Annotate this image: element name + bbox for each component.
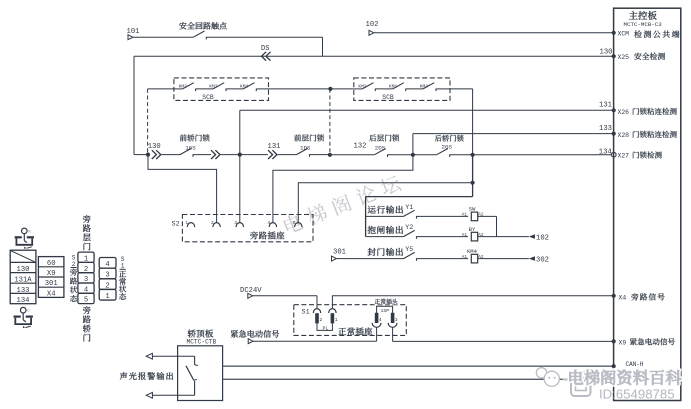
svg-text:S2: S2 bbox=[172, 220, 180, 228]
svg-text:KM2: KM2 bbox=[179, 83, 188, 89]
junction node133 bbox=[411, 153, 415, 157]
wire SCB1 inner d bbox=[256, 88, 268, 90]
wire row f bbox=[310, 154, 330, 156]
CTB switch top contact bbox=[194, 356, 196, 364]
wire row i bbox=[413, 154, 437, 156]
table1 box bbox=[10, 250, 36, 304]
table2 box bbox=[38, 257, 64, 298]
table3 cell 3 bbox=[78, 273, 94, 283]
S2 pin 3 socket bbox=[236, 223, 243, 227]
label 旁路层门 vertical bbox=[83, 215, 91, 223]
wire X28 bbox=[413, 133, 614, 135]
label 前轿门锁 bbox=[180, 134, 187, 141]
svg-text:Y5: Y5 bbox=[405, 246, 413, 253]
wire emergency to pin4 bbox=[253, 340, 377, 342]
connector DS chevrons bbox=[262, 52, 267, 61]
wire SCB1 left stub bbox=[148, 88, 174, 90]
junction node131 bbox=[238, 153, 242, 157]
wire X28 riser bbox=[412, 134, 414, 155]
S2 pin 1 socket bbox=[187, 223, 194, 227]
wire SCB2 out bbox=[450, 88, 473, 90]
svg-text:SCB: SCB bbox=[202, 94, 214, 101]
svg-text:X28: X28 bbox=[618, 132, 630, 139]
switch 2GS bbox=[437, 149, 448, 155]
wire SCB1 inner a bbox=[174, 88, 183, 90]
wire pin3 drop bbox=[392, 327, 394, 341]
watermark bottom 电梯阁资料百科 ID:65498785 bbox=[536, 368, 681, 402]
svg-text:302: 302 bbox=[536, 256, 549, 264]
table3 cell 4 bbox=[78, 283, 94, 293]
svg-text:MCTC-CTB: MCTC-CTB bbox=[187, 339, 217, 346]
arrow to 102 bbox=[529, 234, 535, 239]
table3 cell 1 bbox=[78, 252, 94, 262]
label 正常插头 bg bbox=[374, 298, 399, 305]
terminal X9 bbox=[612, 339, 616, 343]
CTB box bbox=[178, 346, 223, 401]
wire row h bbox=[388, 154, 413, 156]
watermark diagonal 电梯阁论坛 bbox=[282, 173, 402, 235]
wire SCB2 drop to node134 bbox=[472, 89, 474, 155]
wire DC24V drop to S1 pin1 bbox=[316, 296, 318, 309]
wire alarm top bbox=[152, 355, 194, 357]
svg-text:SW: SW bbox=[469, 206, 476, 213]
svg-text:A1: A1 bbox=[462, 213, 468, 218]
arrow alarm out top bbox=[146, 353, 152, 359]
wire SCB1 inner c bbox=[226, 88, 243, 90]
switch Y1 bbox=[404, 210, 415, 216]
wire Y feed drop bbox=[472, 155, 474, 197]
svg-text:A1: A1 bbox=[462, 255, 468, 260]
label 封门输出 Y5 bbox=[368, 248, 376, 256]
wire Y feed bus bbox=[365, 197, 367, 237]
wire S2 pin3 tap bbox=[239, 155, 241, 223]
plug pin3 bbox=[391, 313, 395, 323]
svg-text:1: 1 bbox=[105, 293, 109, 301]
arrow to 302 bbox=[529, 256, 535, 261]
wire row a bbox=[162, 154, 181, 156]
switch 1GS bbox=[180, 148, 191, 154]
contact KM2 (SCB2) bbox=[362, 83, 373, 89]
wire SCB2 inner a bbox=[354, 88, 363, 90]
switch 2DS bbox=[375, 149, 386, 155]
svg-text:3: 3 bbox=[234, 220, 237, 226]
label 主控板 bbox=[629, 11, 638, 19]
svg-text:BY: BY bbox=[469, 226, 476, 233]
svg-text:4: 4 bbox=[379, 317, 382, 323]
S2 pin 4 socket bbox=[269, 223, 276, 227]
S1 box 正常插座 bbox=[294, 305, 407, 336]
svg-text:131: 131 bbox=[268, 143, 281, 151]
table4 cell 4 bbox=[99, 258, 116, 269]
svg-text:1: 1 bbox=[335, 317, 338, 323]
arrow alarm out bottom bbox=[146, 392, 152, 398]
label 紧急电动信号 bbox=[231, 330, 238, 338]
CTB switch blade bbox=[186, 366, 194, 381]
wire Y1 drop bbox=[496, 216, 498, 236]
S1 pin2 socket bbox=[329, 309, 336, 313]
relay coil SW bbox=[471, 212, 477, 221]
wire Y2 row c bbox=[478, 236, 529, 238]
contact KM1 (SCB1) bbox=[213, 83, 224, 89]
wire Y5 row a bbox=[336, 258, 403, 260]
wire CAN-L bbox=[223, 378, 614, 380]
wire Y feed horizontal bbox=[366, 196, 473, 198]
wire Y2 row b bbox=[417, 236, 469, 238]
label 声光报警输出 bbox=[120, 372, 128, 380]
contact KM4 (SCB2) bbox=[423, 83, 434, 89]
key switch symbol bottom bbox=[20, 307, 26, 313]
wire net130 horizontal to X25 bbox=[134, 55, 614, 57]
switch 安全回路触点 bbox=[193, 31, 204, 37]
svg-text:X26: X26 bbox=[618, 109, 630, 116]
svg-text:134: 134 bbox=[599, 149, 612, 157]
label 旁路插座 bbox=[250, 231, 258, 239]
svg-text:X4: X4 bbox=[47, 290, 56, 298]
wire 101 to corner bbox=[206, 36, 322, 38]
wire SCB dashed drop to node132 bbox=[329, 89, 331, 155]
wire DC24V bbox=[253, 295, 317, 297]
plug pin4 bbox=[375, 313, 379, 323]
main board box bbox=[614, 8, 681, 400]
switch Y5 bbox=[404, 252, 415, 258]
wire S2 pin4 tap bbox=[273, 155, 413, 223]
svg-text:S1: S1 bbox=[302, 309, 310, 317]
terminal X27 ring bbox=[612, 152, 617, 157]
wire 102 start arrow bbox=[369, 30, 374, 35]
svg-text:4: 4 bbox=[267, 220, 270, 226]
svg-text:KM4: KM4 bbox=[467, 248, 478, 255]
table4 cell 1 bbox=[99, 289, 116, 300]
svg-text:1: 1 bbox=[185, 220, 188, 226]
wire SCB1 dashed drop to node130 bbox=[147, 89, 149, 155]
label 后轿门锁 bbox=[435, 135, 442, 142]
key switch symbol top bbox=[22, 228, 28, 234]
jumper PL bbox=[317, 323, 332, 330]
svg-text:301: 301 bbox=[333, 248, 346, 256]
svg-text:MCTC-MCB-C3: MCTC-MCB-C3 bbox=[624, 21, 663, 28]
table2 cell X9 bbox=[38, 266, 64, 268]
connector chevrons a bbox=[152, 150, 157, 159]
svg-text:KM2: KM2 bbox=[358, 83, 367, 89]
svg-text:1SP: 1SP bbox=[381, 308, 390, 314]
svg-text:2DS: 2DS bbox=[375, 144, 386, 151]
table3 cell 5 bbox=[78, 293, 94, 303]
relay coil BY bbox=[471, 232, 477, 241]
S2 box 旁路插座 bbox=[182, 215, 313, 242]
label 正常插座 bbox=[338, 328, 346, 335]
wire 102 to XCM bbox=[374, 32, 614, 34]
SCB box 2 bbox=[354, 78, 450, 101]
table1 diagonal bbox=[10, 250, 36, 262]
wire row e bbox=[278, 154, 297, 156]
wire 101 start arrow bbox=[128, 35, 133, 40]
terminal X28 bbox=[612, 132, 616, 136]
svg-text:SCB: SCB bbox=[382, 94, 394, 101]
wire Y1 row a bbox=[366, 215, 404, 217]
relay coil KM4 bbox=[471, 254, 477, 263]
svg-text:G: G bbox=[27, 310, 29, 314]
S1 pin1 socket bbox=[313, 309, 320, 313]
S2 pin 2 socket bbox=[213, 223, 220, 227]
label 运行输出 Y1 bbox=[368, 206, 376, 214]
wire Y2 row a bbox=[366, 236, 404, 238]
wire Y1 row c bbox=[478, 215, 497, 217]
svg-text:2: 2 bbox=[319, 317, 322, 323]
wire X26 riser bbox=[239, 110, 241, 154]
svg-text:134: 134 bbox=[17, 297, 30, 305]
wire row b bbox=[193, 154, 211, 156]
svg-text:KM1: KM1 bbox=[209, 83, 218, 89]
wire SCB1 to junction bbox=[269, 88, 354, 90]
junction node130 bbox=[146, 153, 150, 157]
table1 row 134 bbox=[10, 292, 36, 294]
svg-text:130: 130 bbox=[600, 49, 613, 57]
wire SCB2 inner d bbox=[436, 88, 450, 90]
wire row g bbox=[330, 154, 375, 156]
CTB switch bottom contact bbox=[194, 381, 196, 396]
wire SCB1 inner b bbox=[196, 88, 213, 90]
svg-text:CAN-H: CAN-H bbox=[626, 361, 644, 368]
table1 row 130 bbox=[10, 261, 36, 263]
label 正常插头 bbox=[375, 299, 380, 304]
wire row c bbox=[221, 154, 240, 156]
terminal XCM bbox=[612, 31, 616, 35]
svg-text:2: 2 bbox=[72, 261, 76, 268]
svg-text:3: 3 bbox=[395, 317, 398, 323]
svg-text:131: 131 bbox=[599, 102, 612, 110]
svg-text:X4: X4 bbox=[619, 295, 627, 302]
svg-text:133: 133 bbox=[599, 125, 612, 133]
svg-text:ID:65498785: ID:65498785 bbox=[599, 386, 675, 401]
label 前层门锁 bbox=[294, 134, 301, 141]
wire CAN-H bbox=[223, 365, 614, 367]
mini contact glyph bottom bbox=[23, 326, 25, 328]
wire Y5 row c bbox=[478, 258, 529, 260]
wire S2 pin5 tap bbox=[298, 183, 472, 223]
svg-text:KM4: KM4 bbox=[240, 83, 249, 89]
svg-text:DC24V: DC24V bbox=[240, 287, 262, 295]
junction SCB mid bbox=[328, 87, 332, 91]
svg-text:Y2: Y2 bbox=[405, 224, 413, 231]
S2 pin 5 socket bbox=[295, 223, 302, 227]
junction pin5 tap bbox=[471, 181, 475, 185]
svg-text:XCM: XCM bbox=[618, 31, 630, 38]
contact KM2 (SCB1) bbox=[183, 83, 194, 89]
wire row j bbox=[450, 154, 614, 156]
wire net130 bottom bbox=[134, 154, 148, 156]
table4 cell 3 bbox=[99, 268, 116, 279]
wire pin4 drop bbox=[376, 327, 378, 341]
terminal CAN-L bbox=[612, 377, 616, 381]
svg-text:5: 5 bbox=[84, 297, 88, 305]
wire S2 pin2 tap bbox=[148, 155, 217, 223]
label 轿顶板 bbox=[188, 329, 196, 337]
wire alarm bottom bbox=[152, 394, 194, 396]
wire row d bbox=[240, 154, 268, 156]
svg-text:Y1: Y1 bbox=[405, 204, 413, 211]
wire 101 bbox=[133, 36, 194, 38]
terminal X25 bbox=[612, 54, 616, 58]
svg-text:X9: X9 bbox=[619, 339, 627, 346]
contact KM4 (SCB1) bbox=[243, 83, 254, 89]
svg-text:X27: X27 bbox=[618, 153, 630, 160]
terminal X26 bbox=[612, 108, 616, 112]
table2 cell 301 bbox=[38, 276, 64, 278]
wire Y1 row b bbox=[417, 215, 469, 217]
switch 1DS bbox=[297, 148, 308, 154]
wire emergency to X9 bbox=[393, 340, 614, 342]
wire X26 bbox=[240, 109, 614, 111]
switch Y2 bbox=[404, 230, 415, 236]
contact KM1 (SCB2) bbox=[393, 83, 404, 89]
svg-text:2: 2 bbox=[211, 220, 214, 226]
svg-text:PL: PL bbox=[323, 326, 329, 332]
terminal CAN-H bbox=[612, 364, 616, 368]
wire Y5 start arrow bbox=[332, 256, 337, 261]
svg-text:130: 130 bbox=[148, 143, 161, 151]
svg-text:102: 102 bbox=[536, 234, 549, 242]
table2 cell X4 bbox=[38, 286, 64, 288]
SCB box 1 bbox=[174, 78, 269, 101]
table4 cell 2 bbox=[99, 279, 116, 290]
wire net130 left drop bbox=[133, 56, 135, 154]
svg-text:132: 132 bbox=[354, 143, 367, 151]
svg-text:A1: A1 bbox=[462, 233, 468, 238]
wire Y5 row b bbox=[417, 258, 469, 260]
table3 cell 2 bbox=[78, 262, 94, 272]
plug 1SP bridge bbox=[377, 306, 393, 313]
wire X4 from S1 pin2 bbox=[332, 296, 613, 309]
svg-text:1DS: 1DS bbox=[300, 145, 311, 152]
label 后层门锁 bbox=[369, 134, 376, 141]
junction node134 bbox=[471, 153, 475, 157]
wire emergency start arrow bbox=[248, 339, 253, 344]
svg-text:X25: X25 bbox=[618, 54, 630, 61]
connector chevrons b bbox=[211, 150, 216, 159]
table1 row 133 bbox=[10, 282, 36, 284]
wire 101 drop bbox=[322, 37, 324, 56]
junction node132 bbox=[328, 153, 332, 157]
connector chevrons c bbox=[268, 150, 273, 159]
label 安全回路触点 bbox=[179, 22, 186, 29]
terminal X4 bbox=[612, 294, 616, 298]
svg-text:102: 102 bbox=[366, 21, 379, 29]
label 抱闸输出 Y2 bbox=[368, 226, 376, 234]
svg-text:1: 1 bbox=[121, 263, 125, 270]
mini contact glyph top bbox=[24, 247, 26, 249]
svg-text:KM1: KM1 bbox=[389, 83, 398, 89]
table1 row 131A bbox=[10, 272, 36, 274]
wire SCB2 inner b bbox=[375, 88, 392, 90]
label 旁路轿门 vertical bbox=[83, 306, 91, 314]
svg-text:5: 5 bbox=[293, 220, 296, 226]
wire SCB2 inner c bbox=[406, 88, 423, 90]
wire DC24V start arrow bbox=[248, 293, 253, 298]
svg-text:KM4: KM4 bbox=[420, 83, 429, 89]
